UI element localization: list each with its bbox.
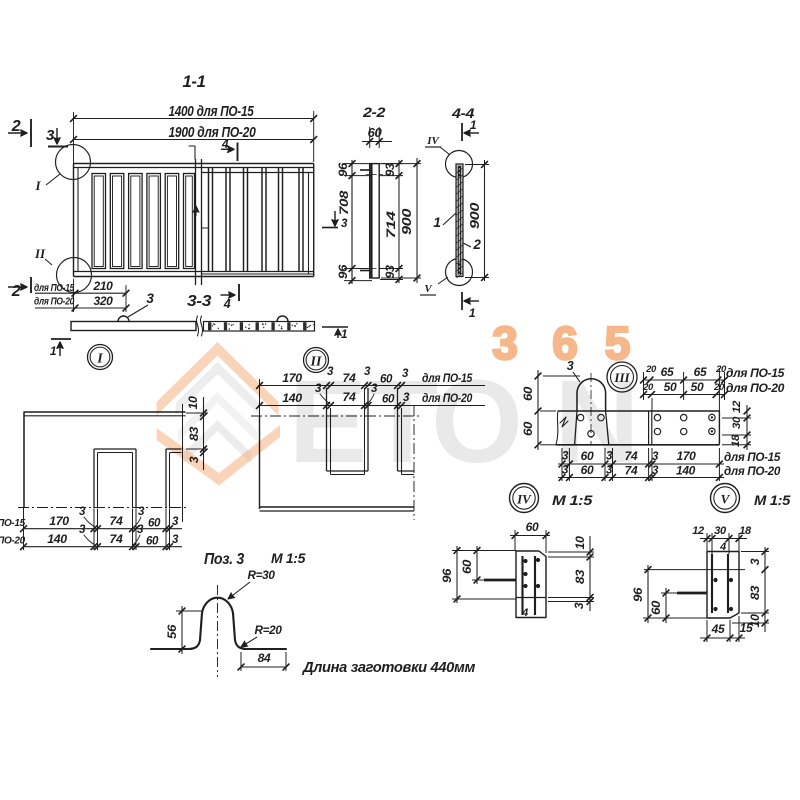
- detail I right chain 10 83 3: [203, 397, 205, 470]
- svg-text:3: 3: [138, 506, 145, 518]
- panel slats left half: [92, 174, 106, 269]
- svg-text:5: 5: [605, 317, 631, 369]
- svg-text:708: 708: [337, 190, 351, 215]
- 2-2 right dim chain 93 714 93: [398, 160, 400, 283]
- svg-text:210: 210: [93, 279, 114, 293]
- detail IV label circle: [510, 484, 539, 513]
- detail II left extension: [259, 379, 261, 416]
- svg-text:84: 84: [258, 651, 271, 665]
- panel right half vertical strips: [208, 168, 210, 272]
- svg-text:Поз. 3: Поз. 3: [204, 551, 245, 568]
- svg-text:R=20: R=20: [255, 623, 283, 637]
- svg-text:96: 96: [336, 264, 350, 279]
- svg-text:для ПО-20: для ПО-20: [726, 381, 785, 395]
- svg-text:15: 15: [740, 621, 753, 635]
- detail I slat 2 partial: [165, 449, 167, 509]
- pos 3 dim 56: [181, 606, 183, 654]
- svg-text:50: 50: [691, 380, 704, 394]
- svg-text:3: 3: [46, 127, 55, 144]
- svg-text:83: 83: [573, 569, 587, 584]
- svg-text:для ПО-15: для ПО-15: [724, 450, 781, 464]
- detail V right chain 3 83 10: [764, 547, 766, 632]
- detail I axis line: [18, 507, 186, 509]
- svg-text:3-3: 3-3: [187, 293, 212, 310]
- detail V crossbar: [677, 592, 707, 595]
- svg-text:65: 65: [661, 365, 674, 379]
- svg-text:4: 4: [521, 607, 528, 619]
- detail circle II on panel: [57, 258, 92, 293]
- 2-2 dim 900 shared with 4-4: [416, 158, 418, 283]
- detail V label circle: [711, 484, 740, 513]
- detail V chain 60: [665, 588, 667, 623]
- svg-text:3: 3: [652, 465, 659, 477]
- 4-4 marker 1 top: [461, 123, 463, 141]
- 3-3 right bar with stipple: [204, 322, 315, 332]
- svg-text:1: 1: [433, 215, 440, 230]
- svg-text:93: 93: [383, 163, 397, 177]
- 4-4 circle V: [446, 259, 473, 286]
- detail II slot 1: [326, 388, 328, 471]
- detail IV chain 96: [456, 546, 458, 603]
- detail III top dim row 20 65 65 20 PO-15: [643, 379, 725, 381]
- detail III top dim row 20 50 50 20 PO-20: [643, 394, 725, 396]
- detail III bottom extension verticals: [561, 448, 563, 481]
- svg-text:3: 3: [341, 218, 348, 230]
- svg-text:3: 3: [492, 317, 518, 369]
- svg-text:ПО-15: ПО-15: [0, 518, 26, 529]
- detail III circle: [607, 362, 637, 392]
- svg-text:4: 4: [223, 297, 231, 311]
- svg-text:170: 170: [677, 449, 697, 463]
- svg-text:М 1:5: М 1:5: [754, 492, 791, 508]
- svg-text:I: I: [96, 352, 103, 367]
- 3-3 break lines: [196, 316, 198, 336]
- 4-4 right dim 900: [484, 160, 486, 281]
- svg-text:4: 4: [719, 541, 726, 553]
- svg-text:ПО-20: ПО-20: [0, 536, 26, 547]
- svg-text:93: 93: [383, 265, 397, 279]
- svg-text:2: 2: [11, 283, 21, 300]
- svg-text:М 1:5: М 1:5: [552, 492, 593, 508]
- detail IV crossbar: [484, 579, 516, 582]
- svg-text:Длина заготовки 440мм: Длина заготовки 440мм: [301, 659, 475, 676]
- detail III tab: [577, 379, 606, 411]
- svg-text:60: 60: [649, 600, 663, 615]
- detail III bottom dim row PO-15: [558, 463, 724, 465]
- svg-text:140: 140: [676, 464, 696, 478]
- svg-text:3: 3: [137, 524, 144, 536]
- svg-text:1400 для ПО-15: 1400 для ПО-15: [169, 103, 255, 120]
- svg-text:I: I: [34, 178, 41, 193]
- svg-text:T: T: [366, 356, 438, 488]
- svg-text:60: 60: [521, 386, 535, 401]
- svg-text:60: 60: [146, 536, 159, 548]
- detail II dim row PO-15: [258, 385, 485, 387]
- svg-text:O: O: [431, 356, 523, 488]
- svg-text:60: 60: [148, 518, 161, 530]
- view label circle I: [88, 345, 113, 370]
- detail III right chain 12 30 18: [746, 405, 748, 450]
- svg-text:30: 30: [731, 416, 743, 429]
- view label circle II: [304, 348, 329, 373]
- svg-text:3: 3: [172, 534, 179, 546]
- detail V top dims 12 30 18: [700, 538, 747, 540]
- svg-text:для ПО-20: для ПО-20: [724, 464, 781, 478]
- svg-text:18: 18: [730, 434, 742, 447]
- dimension 320: [35, 307, 126, 309]
- dimension 1400 dla PO-15: [73, 112, 75, 164]
- svg-text:60: 60: [521, 421, 535, 436]
- detail V bottom dims 45 15: [700, 637, 745, 639]
- detail V rebar: [711, 554, 713, 613]
- svg-text:II: II: [34, 246, 46, 261]
- svg-text:60: 60: [526, 520, 539, 534]
- dimension 210: [35, 292, 126, 294]
- 4-4 post: [456, 164, 463, 277]
- svg-text:900: 900: [467, 202, 482, 229]
- svg-text:30: 30: [714, 525, 727, 537]
- detail IV rebar: [521, 556, 523, 615]
- svg-text:170: 170: [49, 514, 69, 528]
- pos 3 centerline: [217, 585, 219, 677]
- svg-text:714: 714: [384, 211, 398, 239]
- svg-text:2-2: 2-2: [362, 104, 386, 120]
- detail II axis line: [251, 415, 421, 417]
- svg-text:12: 12: [731, 401, 743, 413]
- 2-2 marker 3 left: [334, 211, 336, 226]
- detail III holes: [577, 414, 583, 420]
- svg-text:для ПО-20: для ПО-20: [34, 297, 75, 308]
- svg-text:3: 3: [79, 506, 86, 518]
- detail III top extension verticals: [643, 372, 645, 400]
- svg-text:IV: IV: [426, 135, 440, 147]
- 4-4 circle IV: [446, 151, 473, 178]
- detail III bottom dim row PO-20: [558, 477, 724, 479]
- svg-text:6: 6: [552, 317, 578, 369]
- watermark ETON 365: [157, 317, 640, 488]
- detail V chain 96: [647, 565, 649, 623]
- svg-text:96: 96: [440, 568, 454, 583]
- svg-text:96: 96: [631, 587, 645, 602]
- svg-text:18: 18: [739, 525, 752, 537]
- pos 3 dim 84: [241, 666, 286, 668]
- svg-text:3: 3: [146, 291, 154, 306]
- detail V shape: [707, 552, 739, 619]
- pos 3 profile: [151, 598, 286, 649]
- svg-text:1: 1: [341, 327, 348, 341]
- svg-text:320: 320: [94, 294, 114, 308]
- svg-text:60: 60: [460, 559, 474, 574]
- detail II dim row PO-20: [258, 405, 485, 407]
- svg-text:65: 65: [694, 365, 707, 379]
- detail I extension line right: [182, 404, 184, 522]
- detail I extension verticals: [93, 509, 95, 550]
- svg-text:45: 45: [711, 622, 725, 636]
- svg-text:3: 3: [748, 558, 762, 565]
- 3-3 left bar: [71, 322, 196, 331]
- 3-3 marker 1 left: [51, 338, 71, 340]
- svg-text:1: 1: [470, 118, 477, 132]
- svg-text:74: 74: [110, 514, 123, 528]
- svg-text:М 1:5: М 1:5: [271, 550, 306, 566]
- detail IV chain 60: [476, 546, 478, 584]
- svg-text:10: 10: [573, 536, 587, 550]
- detail IV shape: [516, 551, 546, 618]
- svg-text:для ПО-15: для ПО-15: [726, 366, 785, 380]
- svg-text:V: V: [721, 492, 731, 507]
- svg-text:3: 3: [172, 516, 179, 528]
- detail IV right chain 10 83 3: [589, 536, 591, 611]
- panel middle joint bar: [195, 159, 197, 285]
- svg-text:900: 900: [399, 208, 414, 235]
- svg-text:3: 3: [572, 602, 586, 609]
- svg-text:1: 1: [50, 344, 57, 358]
- svg-text:3: 3: [79, 524, 86, 536]
- svg-text:E: E: [289, 356, 368, 488]
- detail I rail outline: [24, 411, 186, 413]
- svg-text:83: 83: [748, 585, 762, 600]
- svg-text:2: 2: [472, 237, 481, 252]
- detail III plate: [558, 410, 719, 412]
- 4-4 marker 1 bottom: [461, 292, 463, 310]
- svg-text:96: 96: [336, 162, 350, 177]
- 3-3 marker 1 right: [322, 326, 348, 328]
- svg-text:12: 12: [692, 525, 704, 537]
- 2-2 bar: [370, 164, 380, 278]
- svg-text:1-1: 1-1: [183, 73, 206, 91]
- svg-text:1900 для ПО-20: 1900 для ПО-20: [169, 124, 257, 141]
- detail II slot 2: [397, 388, 399, 471]
- detail III joint lines: [648, 411, 650, 445]
- detail circle I on panel: [56, 145, 91, 180]
- svg-text:140: 140: [47, 532, 67, 546]
- svg-text:50: 50: [664, 380, 677, 394]
- svg-text:1: 1: [469, 306, 476, 320]
- detail I slat 1: [93, 449, 95, 509]
- svg-text:56: 56: [165, 624, 179, 639]
- dimension 1900 dla PO-20: [74, 139, 314, 141]
- detail II profile outline: [259, 416, 261, 509]
- svg-text:IV: IV: [516, 492, 532, 507]
- svg-text:для ПО-15: для ПО-15: [34, 283, 75, 294]
- detail III left chain 60 60: [537, 370, 539, 450]
- svg-text:3: 3: [652, 451, 659, 463]
- panel outline: [74, 163, 314, 165]
- svg-text:N: N: [554, 356, 639, 488]
- svg-text:R=30: R=30: [248, 568, 276, 582]
- svg-text:74: 74: [110, 532, 123, 546]
- 2-2 left dim chain 96 708 96: [351, 160, 353, 284]
- svg-text:20: 20: [645, 364, 657, 375]
